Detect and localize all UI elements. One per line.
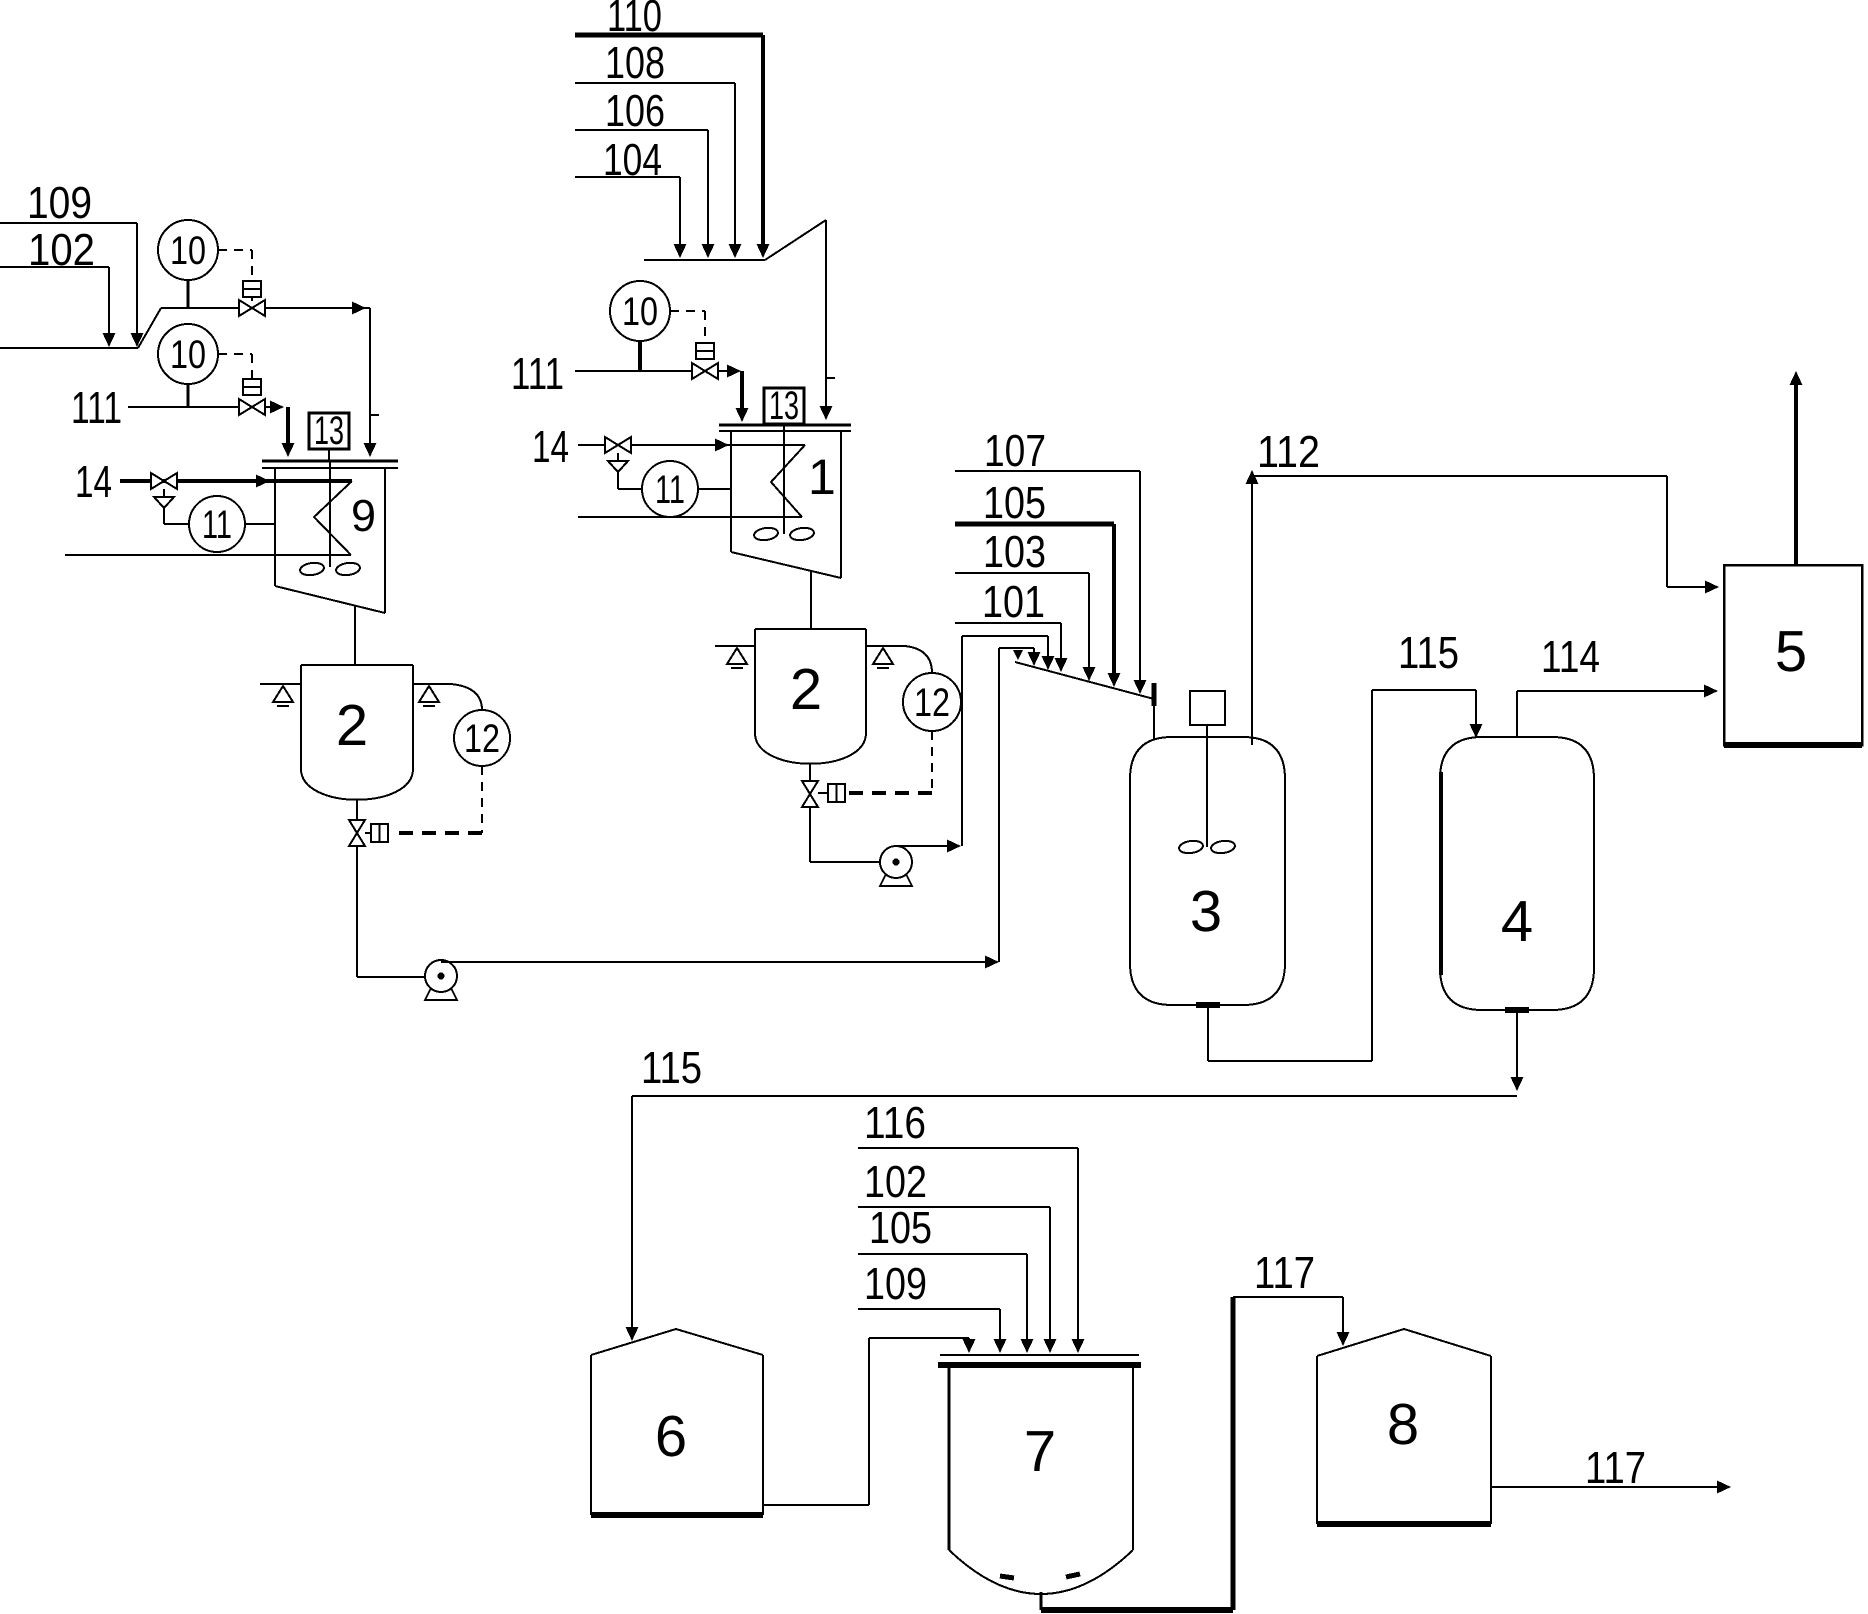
svg-text:12: 12 xyxy=(914,681,950,725)
svg-text:105: 105 xyxy=(869,1202,932,1253)
svg-text:107: 107 xyxy=(984,425,1046,476)
svg-text:14: 14 xyxy=(532,421,569,472)
svg-text:1: 1 xyxy=(808,449,836,505)
svg-text:108: 108 xyxy=(605,37,665,88)
svg-text:111: 111 xyxy=(71,382,122,433)
svg-text:13: 13 xyxy=(769,384,799,428)
svg-text:115: 115 xyxy=(1398,627,1459,678)
svg-text:4: 4 xyxy=(1501,889,1533,954)
svg-text:10: 10 xyxy=(622,290,658,334)
svg-text:114: 114 xyxy=(1541,631,1600,682)
svg-text:10: 10 xyxy=(170,333,206,377)
svg-text:9: 9 xyxy=(351,490,376,541)
svg-text:11: 11 xyxy=(202,503,232,547)
svg-text:2: 2 xyxy=(790,657,822,722)
svg-text:112: 112 xyxy=(1257,426,1320,477)
svg-text:14: 14 xyxy=(75,456,112,507)
svg-text:6: 6 xyxy=(655,1404,687,1469)
svg-text:111: 111 xyxy=(511,348,564,399)
svg-text:109: 109 xyxy=(864,1258,927,1309)
svg-text:10: 10 xyxy=(170,229,206,273)
svg-text:13: 13 xyxy=(314,409,344,453)
svg-text:116: 116 xyxy=(864,1097,926,1148)
svg-text:12: 12 xyxy=(464,717,500,761)
svg-text:11: 11 xyxy=(655,468,685,512)
svg-text:102: 102 xyxy=(864,1156,927,1207)
svg-text:117: 117 xyxy=(1254,1247,1315,1298)
svg-text:3: 3 xyxy=(1190,879,1222,944)
svg-text:5: 5 xyxy=(1775,619,1807,684)
svg-text:8: 8 xyxy=(1387,1392,1419,1457)
svg-text:106: 106 xyxy=(605,85,665,136)
svg-text:101: 101 xyxy=(982,576,1045,627)
svg-text:117: 117 xyxy=(1585,1442,1646,1493)
svg-text:109: 109 xyxy=(27,177,92,228)
svg-text:103: 103 xyxy=(983,526,1046,577)
svg-text:2: 2 xyxy=(336,693,368,758)
svg-text:105: 105 xyxy=(983,477,1046,528)
svg-text:115: 115 xyxy=(641,1042,702,1093)
svg-text:7: 7 xyxy=(1024,1419,1056,1484)
